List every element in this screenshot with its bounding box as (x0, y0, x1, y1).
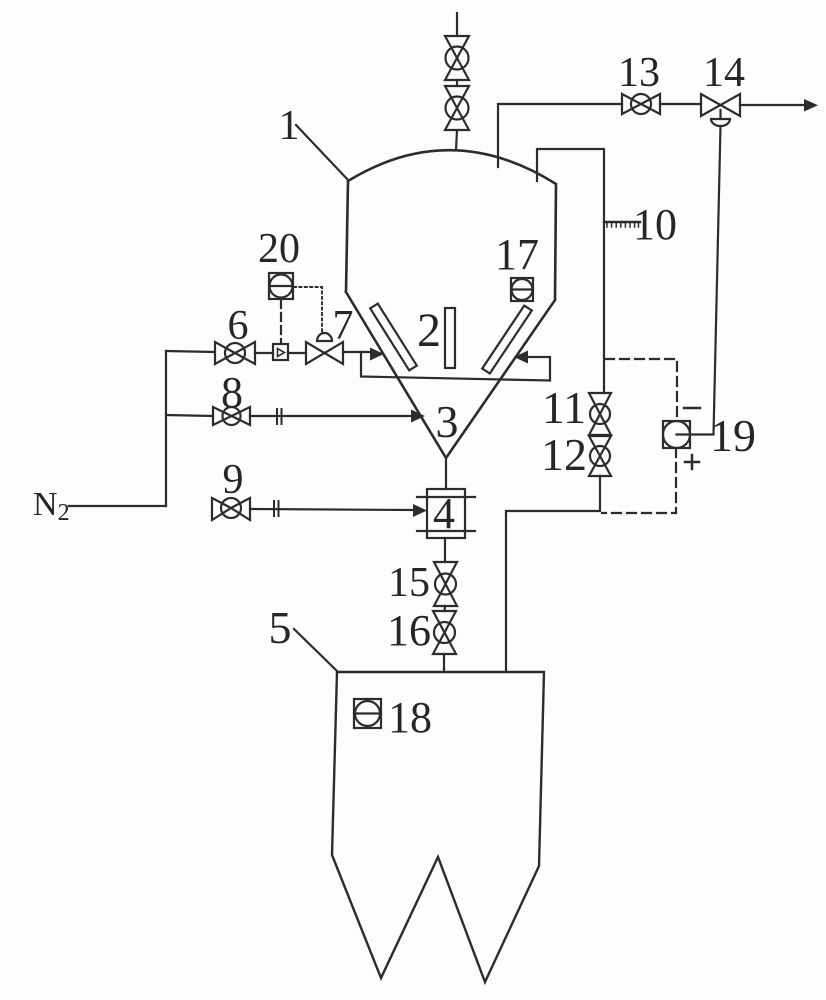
wire clean-gas dip pipe (498, 104, 622, 167)
svg-text:1: 1 (279, 103, 300, 149)
svg-text:11: 11 (542, 382, 586, 433)
svg-text:9: 9 (223, 457, 244, 503)
vessel 1 outline (346, 150, 556, 458)
valve 14 (701, 94, 740, 126)
minus terminal (684, 407, 700, 410)
filter internals 2 (370, 304, 532, 374)
hopper 5 outline (332, 672, 544, 982)
wire top inlet stem (456, 13, 458, 36)
wire branch 6 (166, 351, 215, 352)
wire valve12 outlet down-left to lower vessel (506, 476, 600, 672)
valve 9 (212, 498, 250, 520)
wire valve15 to valve16 (443, 606, 446, 611)
label 1 pointer (296, 125, 348, 180)
svg-text:18: 18 (388, 693, 432, 742)
N2 inlet wire (69, 505, 166, 507)
wire cone apex to feeder (445, 458, 447, 489)
wire valve13 to valve14 (660, 103, 701, 105)
valve top-2 (unlabeled) (445, 86, 469, 130)
svg-text:3: 3 (436, 396, 459, 447)
wire valve16 to hopper (443, 654, 445, 672)
svg-text:N2: N2 (33, 486, 70, 526)
svg-text:2: 2 (417, 304, 441, 357)
svg-text:14: 14 (703, 50, 745, 96)
wire valve8 to cone (250, 415, 412, 417)
svg-text:20: 20 (258, 226, 300, 272)
arrow outlet (804, 99, 818, 112)
svg-text:15: 15 (388, 560, 430, 606)
level probe 10 (604, 222, 640, 227)
instrument 19 (dP gauge) (663, 421, 690, 448)
N2 header wire (165, 351, 167, 506)
flow element (between 6 and 7) (273, 344, 288, 360)
wire valve6 to flow element (255, 352, 273, 354)
svg-text:8: 8 (221, 368, 243, 417)
wire valve9 to feeder 4 (250, 509, 414, 510)
valve top-1 (unlabeled) (445, 36, 469, 80)
wire valve14 down to instrument 19 (677, 126, 721, 435)
impulse line upper (dashed) (605, 359, 677, 421)
valve 7 (control) (306, 333, 343, 364)
break ticks row 9 (274, 501, 279, 516)
arrow into feeder 4 (413, 504, 427, 517)
svg-text:10: 10 (633, 200, 677, 249)
valve 16 (433, 611, 456, 654)
valve 6 (215, 342, 255, 364)
svg-text:6: 6 (228, 303, 249, 349)
svg-text:17: 17 (495, 230, 539, 279)
wire valve14 outlet (740, 104, 806, 106)
distributor loop around cone (361, 352, 550, 381)
instrument 20 (269, 273, 293, 299)
wire feeder to valve15 (444, 538, 446, 562)
arrow into cone (row 8) (411, 410, 425, 423)
svg-text:4: 4 (433, 489, 455, 538)
valve 13 (622, 94, 660, 114)
wire flow element to valve7 (288, 352, 306, 354)
plus terminal (685, 455, 699, 469)
signal 20 to flow element (dashed) (280, 300, 282, 343)
arrow into cone (row 7) (370, 348, 384, 361)
svg-text:19: 19 (710, 410, 756, 461)
wire valve7 to vessel (343, 351, 369, 353)
wire branch 8 (166, 415, 213, 416)
svg-text:16: 16 (387, 606, 431, 655)
valve 8 (213, 407, 250, 425)
svg-text:5: 5 (269, 602, 292, 653)
impulse line lower (dashed) (602, 448, 676, 513)
valve 12 (589, 436, 611, 476)
label 5 pointer (294, 629, 337, 671)
svg-text:13: 13 (618, 50, 660, 96)
valve 15 (434, 562, 457, 606)
instrument 18 (354, 699, 381, 728)
signal 20 to valve7 (dotted) (294, 287, 322, 332)
instrument 17 (511, 278, 533, 301)
break ticks row 8 (277, 409, 282, 424)
arrow into cone right (514, 351, 528, 364)
svg-text:12: 12 (541, 429, 587, 480)
svg-text:7: 7 (333, 303, 354, 349)
wire between top valves (456, 80, 458, 86)
wire right recycle pipe (537, 149, 604, 393)
wire valve to vessel dome (456, 130, 457, 150)
rotary feeder 4 (417, 489, 475, 538)
valve 11 (589, 393, 611, 435)
